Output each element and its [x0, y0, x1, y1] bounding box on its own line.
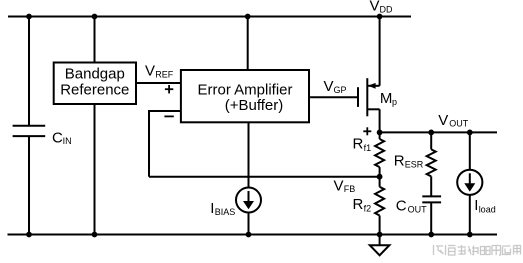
node VDD junction dot at error amplifier branch — [245, 14, 251, 20]
svg-text:ESR: ESR — [405, 159, 424, 169]
svg-text:OUT: OUT — [449, 119, 469, 129]
node ground junction dot COUT — [428, 232, 434, 238]
svg-text:V: V — [145, 63, 155, 80]
node ground junction dot bandgap — [92, 232, 98, 238]
wire from IBIAS to ground rail — [248, 213, 250, 235]
svg-text:R: R — [394, 152, 405, 169]
node output junction dot at RESR branch — [428, 130, 434, 136]
label CIN — [52, 129, 72, 146]
svg-text:p: p — [392, 97, 397, 107]
wire VDD rail down to Mp source — [379, 17, 381, 86]
label IBIAS — [210, 200, 235, 217]
node output junction dot at Mp drain — [377, 130, 383, 136]
svg-text:(+Buffer): (+Buffer) — [225, 97, 284, 114]
label Iload — [474, 197, 495, 215]
capacitor COUT — [422, 196, 441, 234]
wire VOUT down to Iload — [469, 132, 471, 170]
node VDD junction dot at Mp branch — [377, 14, 383, 20]
svg-text:Error Amplifier: Error Amplifier — [197, 82, 292, 99]
capacitor CIN — [13, 126, 46, 136]
svg-text:M: M — [380, 90, 393, 107]
wire from VDD rail down to error amplifier top — [247, 17, 249, 71]
current source Iload — [457, 170, 482, 195]
node ground junction dot Rf2 — [377, 232, 383, 238]
wire VFB feedback — [149, 176, 380, 178]
net label VOUT — [438, 112, 469, 129]
wire from error amplifier bottom to IBIAS — [248, 122, 250, 188]
svg-text:f1: f1 — [364, 143, 372, 153]
svg-text:V: V — [370, 0, 380, 14]
svg-text:C: C — [52, 129, 63, 146]
wire VOUT rail — [380, 131, 497, 133]
label Rf2 — [353, 196, 372, 213]
svg-text:BIAS: BIAS — [215, 207, 236, 217]
svg-text:R: R — [353, 196, 364, 213]
block error amplifier U1 — [181, 70, 309, 122]
wire from VDD rail down to bandgap reference — [94, 17, 96, 63]
svg-text:Reference: Reference — [60, 81, 129, 98]
wire bottom ground rail — [8, 234, 498, 236]
wire from VDD rail down to CIN — [28, 17, 30, 126]
wire from bandgap reference down to ground rail — [94, 104, 96, 235]
wire from CIN down to ground rail — [28, 136, 30, 234]
node output junction dot at Iload branch — [467, 130, 473, 136]
node ground junction dot CIN — [26, 232, 32, 238]
resistor RESR — [427, 132, 436, 196]
node ground junction dot Iload — [467, 232, 473, 238]
svg-text:DD: DD — [380, 4, 393, 14]
watermark — [434, 245, 521, 255]
transistor Mp PMOS — [358, 78, 380, 116]
wire error amplifier minus input — [149, 110, 181, 177]
label plus input — [165, 85, 173, 93]
label Mp — [380, 90, 397, 107]
svg-text:V: V — [324, 78, 334, 95]
svg-text:R: R — [353, 136, 364, 153]
svg-text:f2: f2 — [364, 203, 372, 213]
current source IBIAS — [236, 188, 261, 213]
wire top VDD rail — [8, 16, 411, 18]
svg-text:Bandgap: Bandgap — [65, 66, 125, 83]
resistor Rf2 — [375, 177, 384, 235]
label Rf1 — [353, 136, 372, 153]
label minus input — [164, 115, 173, 117]
wire VREF from bandgap to error amplifier + input — [136, 82, 181, 84]
net label VDD — [370, 0, 393, 14]
label plus output polarity — [363, 127, 371, 135]
wire VGP from error amplifier to Mp gate — [309, 96, 357, 98]
node VDD junction dot at bandgap branch — [92, 14, 98, 20]
ground — [370, 235, 390, 256]
block bandgap reference — [54, 63, 136, 105]
svg-text:IN: IN — [63, 136, 72, 146]
svg-text:OUT: OUT — [408, 205, 428, 215]
label COUT — [396, 197, 427, 214]
node VDD junction dot at CIN branch — [26, 14, 32, 20]
label RESR — [394, 152, 424, 169]
net label VGP — [324, 78, 347, 95]
svg-text:REF: REF — [155, 70, 174, 80]
svg-text:GP: GP — [334, 85, 347, 95]
resistor Rf1 — [375, 132, 384, 176]
svg-text:V: V — [438, 112, 448, 129]
node ground junction dot IBIAS — [246, 232, 252, 238]
node VFB junction dot — [377, 174, 383, 180]
net label VFB — [334, 177, 356, 194]
svg-text:V: V — [334, 177, 344, 194]
svg-text:FB: FB — [344, 184, 356, 194]
net label VREF — [145, 63, 174, 80]
svg-text:load: load — [479, 205, 496, 215]
wire from Iload to ground rail — [469, 195, 471, 235]
wire Mp drain down to output node — [379, 109, 381, 132]
svg-text:C: C — [396, 197, 407, 214]
